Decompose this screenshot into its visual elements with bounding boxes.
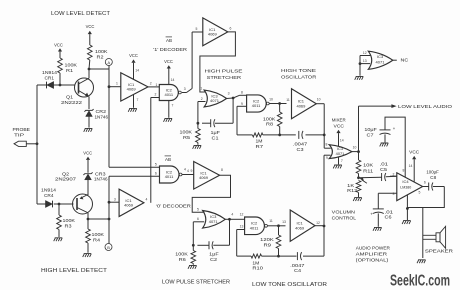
svg-text:1: 1	[116, 81, 118, 85]
svg-text:1: 1	[200, 86, 202, 90]
svg-text:1N746: 1N746	[95, 115, 109, 120]
svg-text:SPEAKER: SPEAKER	[425, 249, 454, 254]
node inverter input from A	[108, 81, 121, 88]
capacitor C7 10uF	[364, 117, 405, 177]
svg-text:C7: C7	[367, 133, 375, 138]
svg-text:100K: 100K	[180, 130, 193, 135]
ground below LM380	[402, 221, 411, 224]
svg-text:1N914: 1N914	[42, 70, 58, 75]
svg-text:8: 8	[241, 91, 243, 95]
wire IC2d pin13 to RC line	[237, 230, 245, 257]
svg-text:CR2: CR2	[96, 109, 107, 114]
svg-text:9: 9	[191, 169, 193, 173]
ground below NAND IC2a	[164, 101, 174, 122]
svg-text:R10: R10	[252, 265, 263, 270]
svg-text:4071: 4071	[209, 219, 219, 224]
power VCC above LM380	[409, 150, 420, 182]
svg-text:R2: R2	[97, 55, 105, 60]
ground below speaker line	[417, 260, 426, 263]
svg-text:R8: R8	[266, 122, 274, 127]
svg-text:R9: R9	[264, 242, 272, 247]
node R9 RC junction	[277, 255, 280, 258]
capacitor C1 1uF	[202, 119, 233, 140]
svg-text:C3: C3	[297, 147, 305, 152]
power VCC above NAND IC2a	[164, 59, 174, 84]
svg-text:4: 4	[231, 213, 233, 217]
svg-text:100K: 100K	[175, 251, 188, 256]
node mixer output	[352, 106, 360, 153]
ground below R6	[188, 265, 197, 268]
node collector Q1 / A net	[88, 68, 109, 71]
transistor Q2 2N2907	[55, 171, 93, 219]
node R5 C1 junction	[197, 122, 200, 125]
svg-text:2: 2	[201, 97, 203, 101]
ground below C6	[373, 227, 382, 230]
label AB bar above NAND IC2a	[166, 37, 172, 43]
transistor Q1 2N2222	[61, 69, 94, 109]
nand gate IC2c 4011 high tone	[241, 91, 273, 113]
capacitor C5 .01	[359, 162, 397, 181]
svg-text:4069: 4069	[296, 104, 306, 109]
svg-text:12: 12	[363, 51, 367, 55]
svg-text:12: 12	[240, 213, 244, 217]
svg-text:4069: 4069	[124, 203, 134, 208]
label AUDIO POWER AMPLIFIER (OPTIONAL)	[356, 245, 391, 263]
svg-text:11: 11	[269, 219, 273, 223]
svg-text:MIXER: MIXER	[332, 118, 346, 124]
svg-text:14: 14	[171, 78, 175, 82]
svg-text:HIGH LEVEL DETECT: HIGH LEVEL DETECT	[41, 268, 107, 274]
svg-text:R7: R7	[256, 144, 264, 149]
svg-text:(OPTIONAL): (OPTIONAL)	[356, 258, 389, 264]
svg-text:4069: 4069	[199, 175, 209, 180]
node base Q2	[58, 203, 74, 206]
svg-text:3: 3	[114, 198, 116, 202]
svg-text:C8: C8	[430, 175, 437, 180]
wire probe to junction	[26, 143, 37, 145]
svg-text:9: 9	[326, 156, 328, 160]
svg-text:CR1: CR1	[45, 76, 55, 81]
op-amp IC4 LM380	[393, 169, 426, 201]
svg-text:5: 5	[155, 162, 157, 166]
svg-text:AMPLIFIER: AMPLIFIER	[356, 251, 388, 257]
svg-text:100K: 100K	[92, 232, 105, 237]
ground below IC3d inputs	[355, 64, 364, 80]
svg-text:7: 7	[172, 104, 174, 108]
svg-text:LM380: LM380	[400, 186, 411, 190]
svg-text:LOW TONE OSCILLATOR: LOW TONE OSCILLATOR	[252, 282, 327, 288]
svg-text:5: 5	[197, 208, 199, 212]
svg-text:AB: AB	[165, 157, 171, 162]
wire oscillator RC bottom line	[237, 134, 324, 136]
svg-text:2N2907: 2N2907	[55, 177, 77, 182]
svg-text:100μF: 100μF	[426, 169, 439, 174]
label LOW LEVEL AUDIO with arrow	[359, 104, 453, 110]
svg-text:C1: C1	[212, 136, 220, 141]
wire IC3d tied inputs	[359, 51, 371, 65]
wire LM380 pin3 to C6	[378, 193, 397, 208]
wire IC1a output to NAND IC2a	[148, 82, 159, 87]
label HIGH TONE OSCILLATOR	[281, 68, 317, 80]
svg-text:10: 10	[269, 98, 273, 102]
wire IC1b feedback loop	[200, 32, 236, 92]
svg-text:R6: R6	[179, 257, 187, 262]
ground below R5	[193, 145, 202, 148]
svg-text:R4: R4	[93, 237, 101, 242]
wire A net to NAND IC2b pin 5	[109, 162, 160, 167]
wire C1 to IC3a output node	[232, 98, 234, 123]
or gate IC3c 4071 mixer	[329, 145, 352, 159]
capacitor C4 .0047	[290, 252, 305, 273]
ground below C7	[380, 143, 389, 146]
svg-text:4011: 4011	[250, 225, 259, 230]
node IC2c output	[269, 98, 290, 105]
nand gate IC2a 4011 '1' decoder	[155, 83, 186, 101]
svg-text:2N2222: 2N2222	[61, 100, 83, 105]
svg-text:LOW LEVEL DETECT: LOW LEVEL DETECT	[51, 11, 110, 17]
wire mixer input pin 9	[324, 155, 331, 160]
svg-text:NC: NC	[401, 58, 410, 63]
speaker	[423, 226, 454, 253]
svg-text:VCC: VCC	[334, 124, 345, 130]
wire B net to NAND IC2b pin 6	[109, 172, 160, 177]
svg-text:A: A	[107, 60, 110, 65]
svg-text:13: 13	[363, 59, 367, 63]
wire C8 return loop	[407, 187, 444, 208]
resistor R11 10K volume	[356, 152, 374, 178]
svg-text:PROBE: PROBE	[13, 127, 31, 132]
power VCC above inverter IC1a	[129, 53, 139, 80]
svg-text:IC4: IC4	[402, 179, 409, 184]
svg-text:4: 4	[187, 169, 189, 173]
svg-text:12: 12	[316, 221, 320, 225]
wire NAND IC2b output to IC1d	[182, 169, 194, 175]
svg-text:10K: 10K	[363, 163, 373, 168]
svg-text:3: 3	[184, 87, 186, 91]
svg-text:1μF: 1μF	[211, 130, 221, 135]
svg-text:VCC: VCC	[86, 24, 95, 29]
svg-text:14: 14	[340, 139, 344, 143]
svg-text:CR4: CR4	[44, 193, 54, 198]
resistor R10 1M	[251, 254, 264, 270]
svg-text:1: 1	[156, 83, 158, 87]
svg-text:14: 14	[409, 164, 413, 168]
svg-text:7: 7	[341, 159, 343, 163]
ground below R12	[353, 198, 362, 201]
svg-text:VCC: VCC	[164, 59, 173, 64]
wire speaker drop	[422, 208, 424, 259]
svg-text:5: 5	[419, 191, 421, 195]
svg-text:4011: 4011	[165, 174, 174, 179]
capacitor C6 .01	[370, 209, 394, 227]
svg-text:8: 8	[403, 169, 405, 173]
svg-text:1μF: 1μF	[209, 251, 219, 256]
svg-text:8: 8	[326, 143, 328, 147]
wire NAND IC2a input 2 from vertical	[151, 98, 160, 203]
svg-text:AUDIO POWER: AUDIO POWER	[356, 245, 391, 251]
svg-text:C6: C6	[385, 215, 393, 220]
svg-text:4071: 4071	[336, 151, 345, 156]
capacitor C3 .0047	[293, 131, 308, 152]
inverter IC1d 4069 low stretcher	[194, 162, 223, 190]
or gate IC3b 4071 low stretcher	[203, 211, 226, 229]
svg-text:9: 9	[241, 102, 243, 106]
svg-text:VCC: VCC	[409, 150, 420, 155]
svg-text:HIGH TONE: HIGH TONE	[281, 68, 316, 74]
inverter IC1e 4069 high tone	[292, 89, 321, 119]
svg-text:120K: 120K	[260, 237, 274, 242]
wire LM380 ground pin	[406, 195, 409, 220]
svg-text:6: 6	[424, 180, 426, 184]
label AB bar above NAND IC2b	[165, 156, 171, 162]
node IC3b output	[225, 213, 244, 221]
ground below IC1a	[128, 95, 138, 112]
diode CR4 1N914	[37, 187, 59, 207]
svg-text:4011: 4011	[252, 103, 261, 108]
diode CR1 1N914	[37, 70, 60, 88]
ground below R4	[83, 254, 92, 257]
svg-text:VCC: VCC	[83, 150, 92, 155]
wire IC1f output node	[315, 225, 325, 228]
svg-text:STRETCHER: STRETCHER	[207, 75, 242, 81]
ground below mixer	[333, 158, 343, 169]
svg-text:VCC: VCC	[54, 42, 63, 47]
svg-text:OSCILLATOR: OSCILLATOR	[281, 74, 317, 80]
resistor R7 1M	[252, 133, 263, 149]
svg-text:4069: 4069	[295, 225, 305, 230]
svg-text:13: 13	[240, 225, 244, 229]
power VCC above mixer	[336, 130, 343, 146]
node A circled	[105, 59, 112, 70]
svg-text:Q2: Q2	[62, 171, 70, 176]
svg-text:10: 10	[353, 145, 357, 149]
svg-text:5: 5	[196, 27, 198, 31]
svg-text:R5: R5	[183, 135, 191, 140]
svg-text:.0047: .0047	[293, 141, 308, 146]
nand gate IC2d 4011 low tone	[240, 217, 273, 235]
svg-text:1N746: 1N746	[94, 177, 108, 182]
svg-text:4071: 4071	[210, 98, 220, 103]
power VCC above R2	[86, 24, 95, 45]
wire LM380 pin2 input	[390, 175, 397, 177]
resistor R3 100K	[57, 204, 75, 237]
svg-text:C2: C2	[210, 257, 218, 262]
svg-text:4069: 4069	[127, 87, 137, 92]
svg-text:HIGH PULSE: HIGH PULSE	[205, 69, 243, 75]
svg-text:6: 6	[197, 217, 199, 221]
svg-text:C4: C4	[294, 268, 302, 273]
resistor R1 100K	[54, 42, 77, 85]
ground below CR2	[84, 128, 93, 131]
or gate IC3d 4071 unused	[368, 51, 393, 69]
svg-text:100K: 100K	[63, 218, 76, 223]
svg-text:14: 14	[135, 69, 139, 73]
node base Q1	[59, 84, 75, 87]
wire IC1e output to feedback vertical	[316, 104, 324, 149]
svg-text:4071: 4071	[376, 59, 386, 64]
svg-text:100K: 100K	[65, 62, 78, 67]
wire IC1d feedback loop	[192, 175, 230, 212]
svg-text:11: 11	[286, 98, 290, 102]
wire A net vertical	[108, 69, 110, 167]
svg-text:10: 10	[317, 98, 321, 102]
svg-text:AB: AB	[166, 38, 172, 43]
wire mixer input pin 8	[324, 143, 331, 149]
node R6 C2 junction	[192, 244, 195, 247]
svg-text:2: 2	[150, 82, 152, 86]
svg-text:‘1’ DECODER: ‘1’ DECODER	[153, 47, 188, 53]
wire B net vertical	[108, 176, 110, 243]
svg-text:VCC: VCC	[129, 53, 138, 58]
label MIXER	[332, 118, 346, 130]
svg-text:4011: 4011	[164, 92, 173, 97]
svg-text:R11: R11	[363, 168, 374, 173]
svg-text:6: 6	[155, 172, 157, 176]
zener CR2 1N746	[84, 109, 108, 128]
capacitor C2 1uF	[197, 241, 229, 262]
svg-text:100K: 100K	[95, 49, 108, 54]
probe tip	[13, 127, 31, 147]
wire IC3a lower input from C1 node	[198, 97, 206, 123]
wire NAND IC2a output up to IC1b	[182, 27, 203, 93]
svg-text:R12: R12	[347, 188, 358, 193]
svg-text:3: 3	[228, 91, 230, 95]
svg-text:CONTROL: CONTROL	[332, 216, 357, 222]
resistor R9 120K	[260, 226, 281, 256]
svg-text:CR3: CR3	[95, 171, 106, 176]
svg-text:TIP: TIP	[14, 133, 24, 138]
node B circled	[105, 244, 112, 251]
label HIGH PULSE STRETCHER	[205, 69, 243, 82]
svg-text:1N914: 1N914	[41, 187, 57, 192]
wire IC3b lower input from C2 node	[193, 217, 204, 245]
op-amp style inverter IC1a 4069	[121, 73, 148, 101]
power VCC above CR3	[83, 150, 92, 173]
svg-text:4: 4	[146, 198, 148, 202]
svg-text:C5: C5	[380, 167, 388, 172]
zener CR3 1N746	[83, 171, 108, 195]
node C3 R7 output junction	[278, 134, 325, 137]
svg-text:‘0’ DECODER: ‘0’ DECODER	[156, 204, 192, 210]
inverter IC1f 4069 low tone	[290, 210, 320, 241]
svg-text:LOW LEVEL AUDIO: LOW LEVEL AUDIO	[398, 104, 452, 110]
label VOLUMN CONTROL	[332, 210, 357, 222]
svg-text:6: 6	[230, 26, 232, 30]
wire oscillator low RC bottom line	[237, 155, 324, 256]
wire probe vertical bus	[36, 85, 38, 204]
node collector Q2 / B net	[87, 218, 111, 221]
node volume tap with wiper arrow	[357, 176, 367, 183]
svg-text:10μF: 10μF	[364, 127, 377, 132]
capacitor C8 100uF	[423, 169, 445, 190]
svg-text:7: 7	[137, 98, 139, 102]
label NC output	[393, 58, 409, 63]
svg-text:8: 8	[221, 168, 223, 172]
inverter IC1b 4069 high stretcher	[203, 18, 232, 46]
resistor R6 100K	[175, 245, 195, 264]
ground below R3	[54, 238, 63, 241]
resistor R12 1K	[347, 181, 361, 198]
svg-text:R1: R1	[66, 68, 74, 73]
node IC2d output	[268, 220, 286, 227]
wire C2 to IC3b output node	[229, 219, 231, 245]
node probe junction	[36, 142, 39, 145]
svg-text:SeekIC.com: SeekIC.com	[390, 273, 450, 290]
node IC3a output	[227, 91, 247, 99]
resistor R4 100K	[86, 219, 104, 253]
inverter IC1c 4069 B	[119, 189, 147, 216]
svg-text:13: 13	[282, 220, 286, 224]
svg-text:LOW PULSE STRETCHER: LOW PULSE STRETCHER	[162, 280, 230, 286]
svg-text:R3: R3	[65, 223, 73, 228]
node inverter IC1c input from B	[108, 198, 120, 204]
resistor R2 100K	[88, 45, 108, 69]
svg-text:B: B	[107, 245, 110, 250]
svg-text:4: 4	[184, 168, 186, 172]
resistor R8 100K	[263, 104, 282, 135]
nand gate IC2b 4011 '0' decoder	[160, 166, 187, 183]
resistor R5 100K	[180, 123, 201, 145]
svg-text:VOLUMN: VOLUMN	[332, 210, 356, 216]
svg-text:4069: 4069	[208, 32, 218, 37]
svg-text:2: 2	[155, 92, 157, 96]
or gate IC3a 4071 high stretcher	[204, 90, 226, 107]
wire IC2c pin9 to RC line	[237, 106, 247, 135]
